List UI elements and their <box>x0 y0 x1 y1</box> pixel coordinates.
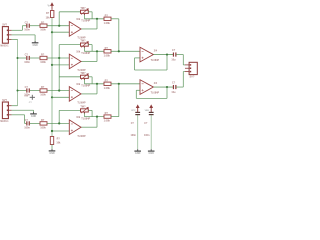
svg-text:100k: 100k <box>40 93 46 96</box>
svg-text:10k: 10k <box>76 18 81 21</box>
svg-text:SV?: SV? <box>190 76 195 79</box>
svg-text:1.08k: 1.08k <box>104 54 111 57</box>
svg-text:SV?: SV? <box>2 99 7 102</box>
svg-text:10k: 10k <box>46 16 51 19</box>
svg-text:C?: C? <box>25 21 29 24</box>
svg-text:100k: 100k <box>40 126 46 129</box>
svg-text:TL084P: TL084P <box>77 102 86 105</box>
svg-text:100n: 100n <box>24 126 30 129</box>
svg-text:10k: 10k <box>76 83 81 86</box>
svg-text:TL084P: TL084P <box>81 118 90 121</box>
svg-text:GND: GND <box>149 152 155 155</box>
svg-text:10u: 10u <box>171 59 176 62</box>
svg-text:TL084P: TL084P <box>81 19 90 22</box>
svg-text:R?: R? <box>41 54 45 57</box>
svg-text:R?: R? <box>105 112 109 115</box>
svg-text:R?: R? <box>41 119 45 122</box>
svg-text:TL084P: TL084P <box>151 91 160 94</box>
svg-text:R?: R? <box>41 21 45 24</box>
svg-text:MA03-1: MA03-1 <box>0 45 9 48</box>
svg-text:TM?: TM? <box>80 7 86 10</box>
svg-text:TM?: TM? <box>80 40 86 43</box>
svg-text:10k: 10k <box>76 116 81 119</box>
svg-text:1.08k: 1.08k <box>104 87 111 90</box>
svg-text:100n: 100n <box>24 61 30 64</box>
svg-text:GND: GND <box>135 152 141 155</box>
svg-text:SV?: SV? <box>2 24 7 27</box>
svg-text:GND: GND <box>31 115 37 118</box>
svg-text:TL084P: TL084P <box>77 135 86 138</box>
svg-text:R?: R? <box>41 86 45 89</box>
svg-text:C?: C? <box>172 49 176 52</box>
svg-text:R?: R? <box>46 12 50 15</box>
svg-text:100n: 100n <box>144 134 150 137</box>
svg-text:C?: C? <box>131 122 135 125</box>
svg-text:C?: C? <box>25 54 29 57</box>
svg-text:TL084P: TL084P <box>151 59 160 62</box>
svg-text:R?: R? <box>57 137 61 140</box>
svg-text:VEE: VEE <box>145 110 150 112</box>
svg-text:100k: 100k <box>40 29 46 32</box>
svg-text:MA03-1: MA03-1 <box>0 120 9 123</box>
svg-text:TM?: TM? <box>80 72 86 75</box>
svg-text:GND: GND <box>49 152 55 155</box>
svg-text:R?: R? <box>105 47 109 50</box>
svg-text:1.08k: 1.08k <box>104 120 111 123</box>
svg-text:1.08k: 1.08k <box>104 22 111 25</box>
svg-text:R?: R? <box>105 79 109 82</box>
svg-text:10k: 10k <box>56 142 61 145</box>
svg-text:TL084P: TL084P <box>81 52 90 55</box>
svg-text:TL084P: TL084P <box>81 84 90 87</box>
svg-text:100k: 100k <box>40 61 46 64</box>
svg-text:C?: C? <box>172 82 176 85</box>
svg-text:100n: 100n <box>24 29 30 32</box>
svg-text:100n: 100n <box>131 134 137 137</box>
svg-text:C?: C? <box>25 119 29 122</box>
svg-text:C?: C? <box>144 122 148 125</box>
svg-text:GND: GND <box>32 44 38 47</box>
svg-text:TM?: TM? <box>80 105 86 108</box>
svg-text:10k: 10k <box>76 51 81 54</box>
svg-text:R?: R? <box>105 14 109 17</box>
svg-text:C?: C? <box>25 86 29 89</box>
svg-text:10u: 10u <box>171 91 176 94</box>
